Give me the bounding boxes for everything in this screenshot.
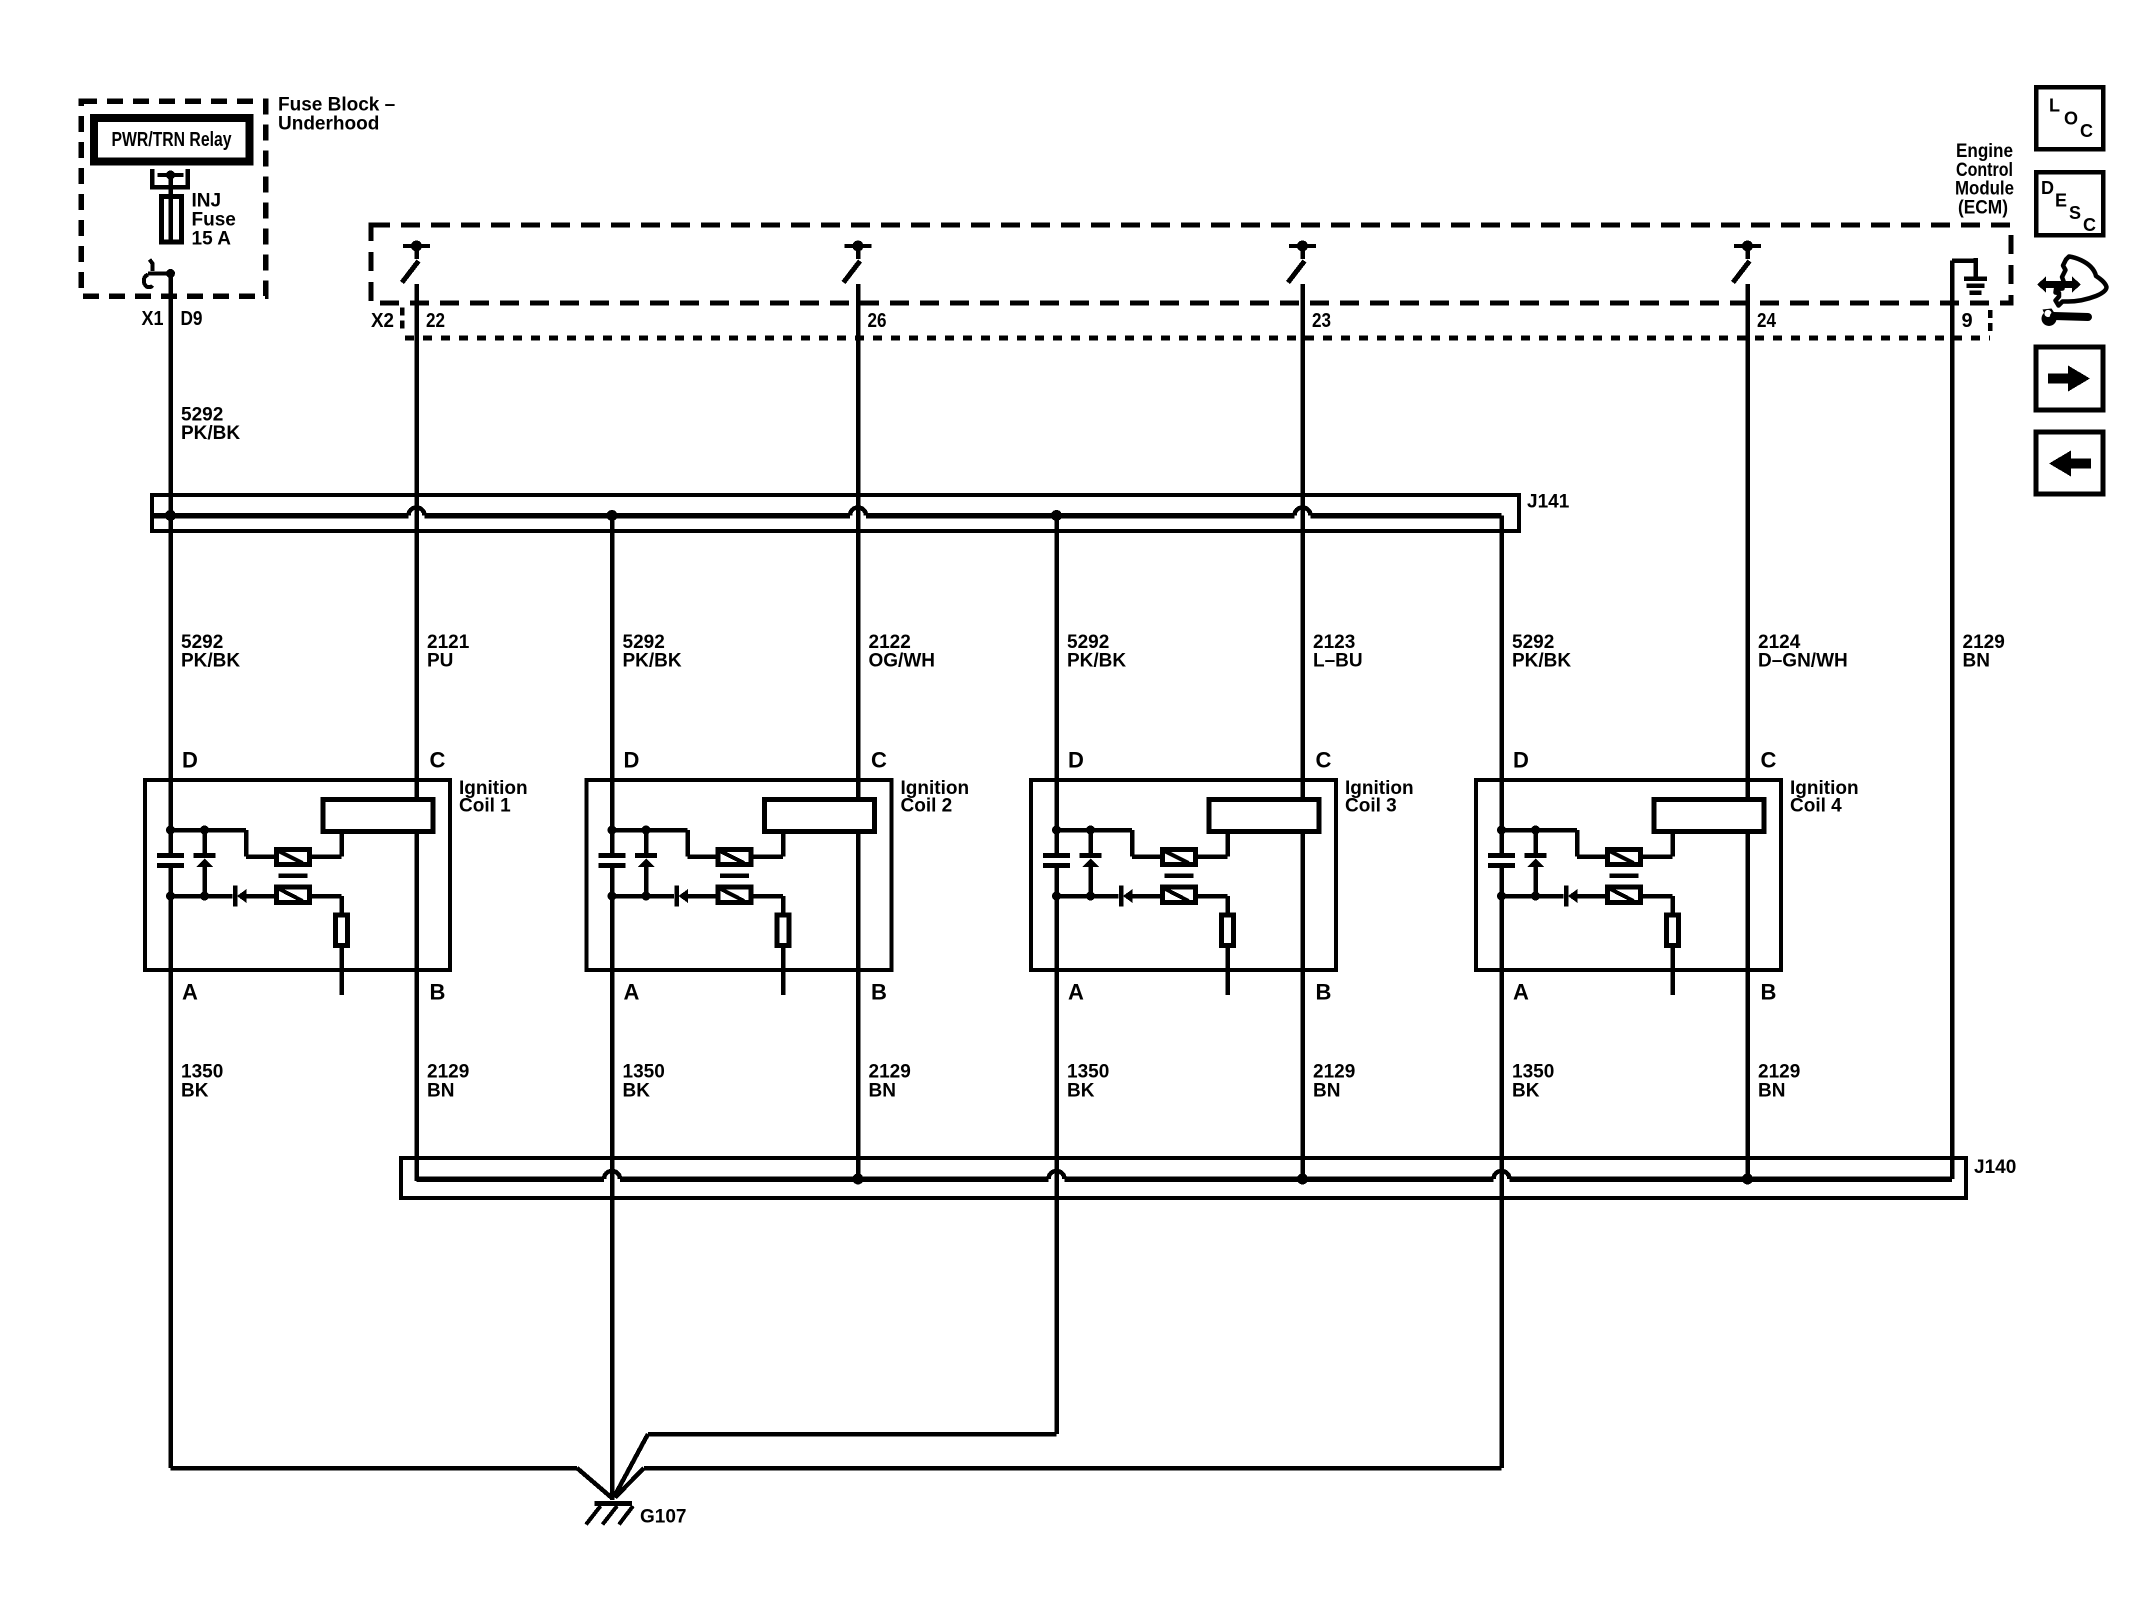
svg-text:C: C: [871, 748, 887, 773]
svg-text:PK/BK: PK/BK: [181, 423, 240, 444]
ground G107 symbol: [586, 1504, 633, 1525]
svg-text:22: 22: [426, 310, 445, 332]
secondary winding (coil 4): [1608, 887, 1641, 903]
pin label C (coil 1): [430, 748, 446, 773]
svg-text:S: S: [2069, 203, 2081, 223]
primary winding (coil 2): [718, 850, 751, 865]
wire 5292 PK/BK: J141 end to coil 4 pin D: [1499, 516, 1504, 854]
svg-text:26: 26: [868, 310, 887, 332]
wire 2129 BN: coil 4 pin B to J140: [1745, 833, 1750, 1179]
junction dot J141 / 5292 from D9: [165, 510, 176, 521]
svg-text:2129: 2129: [1313, 1062, 1355, 1083]
svg-text:PU: PU: [427, 651, 453, 672]
label: wire 5292 PK/BK: [623, 632, 682, 672]
pin label B (coil 3): [1316, 980, 1332, 1005]
internal wire: diode to secondary winding (coil 1): [247, 894, 277, 899]
pin label A (coil 3): [1068, 980, 1084, 1005]
transformer core (coil 1): [279, 873, 308, 878]
driver module box (coil 3): [1209, 800, 1319, 832]
junction dot (coil 1 zener top): [200, 826, 209, 835]
pin label C (coil 3): [1316, 748, 1332, 773]
junction dot J141 / coil 3 tap: [1051, 510, 1062, 521]
svg-text:D: D: [624, 748, 640, 773]
driver module box (coil 2): [765, 800, 875, 832]
internal wire: primary to driver module (coil 1): [310, 833, 342, 857]
svg-text:Fuse: Fuse: [192, 210, 236, 231]
svg-text:PK/BK: PK/BK: [623, 651, 682, 672]
transformer core (coil 3): [1165, 873, 1194, 878]
svg-text:A: A: [182, 980, 198, 1005]
svg-text:INJ: INJ: [192, 191, 222, 212]
pin label 9: [1962, 310, 1973, 332]
label: wire 2129 BN: [869, 1062, 911, 1102]
ECM driver switch at pin 26: [844, 241, 872, 283]
secondary winding (coil 1): [277, 887, 310, 903]
internal wire: primary to driver module (coil 3): [1196, 833, 1228, 857]
primary winding (coil 4): [1608, 850, 1641, 865]
junction dot J140 / coil 2 BN: [853, 1174, 864, 1185]
svg-text:D: D: [1513, 748, 1529, 773]
secondary winding (coil 3): [1163, 887, 1196, 903]
wire 1350 BK: coil 2 pin A to G107: [610, 868, 615, 1500]
pin label C (coil 2): [871, 748, 887, 773]
svg-text:D–GN/WH: D–GN/WH: [1758, 651, 1848, 672]
junction dot (coil 4 zener bottom): [1531, 892, 1540, 901]
internal wire: diode to secondary winding (coil 2): [688, 894, 718, 899]
zener diode (coil 1): [194, 830, 216, 896]
engine control module (ECM) dashed box: [371, 225, 2011, 303]
pin label D (coil 4): [1513, 748, 1529, 773]
junction dot (coil 2 zener top): [642, 826, 651, 835]
svg-text:G107: G107: [640, 1507, 686, 1528]
pin label X1: [142, 308, 164, 330]
junction dot (coil 3 zener bottom): [1086, 892, 1095, 901]
HV output stub (coil 3): [1225, 946, 1230, 996]
label: wire 2122 OG/WH: [869, 632, 936, 672]
capacitor C (coil 4): [1488, 856, 1515, 866]
junction dot (coil 3 pin A / bottom): [1052, 892, 1061, 901]
svg-text:L–BU: L–BU: [1313, 651, 1363, 672]
ignition coil 4 assembly box: [1476, 780, 1781, 970]
svg-text:C: C: [2083, 215, 2096, 235]
resistor (coil 1): [336, 915, 348, 946]
svg-text:E: E: [2055, 191, 2067, 211]
diode (coil 3): [1121, 886, 1133, 907]
pin label A (coil 4): [1513, 980, 1529, 1005]
wire 2129 BN: coil 2 pin B to J140: [856, 833, 861, 1179]
wire hop at pin26 wire (no connection): [850, 508, 866, 516]
label: wire 2124 D–GN/WH: [1758, 632, 1848, 672]
zener diode (coil 2): [635, 830, 657, 896]
label: Engine Control Module (ECM): [1955, 141, 2014, 219]
wire: relay to fuse: [168, 175, 173, 197]
label: wire 5292 PK/BK (fuse block output): [181, 405, 240, 445]
svg-text:Module: Module: [1955, 179, 2014, 200]
label: INJ Fuse 15 A: [192, 191, 236, 250]
pin label 26: [868, 310, 887, 332]
wire hop at pin22 wire (no connection): [409, 508, 425, 516]
connector separator (left, X2): [400, 308, 405, 334]
internal wire: secondary to resistor (coil 3): [1196, 896, 1228, 915]
internal wire: lower junction row (coil 2): [612, 894, 674, 899]
label: wire 2121 PU: [427, 632, 470, 672]
svg-text:X1: X1: [142, 308, 164, 330]
svg-text:Coil 3: Coil 3: [1345, 796, 1397, 817]
svg-text:1350: 1350: [1512, 1062, 1554, 1083]
label: wire 1350 BK: [1067, 1062, 1109, 1102]
pin label D (coil 3): [1068, 748, 1084, 773]
svg-text:BK: BK: [1067, 1081, 1095, 1102]
svg-text:1350: 1350: [181, 1062, 223, 1083]
junction dot (coil 4 pin A / bottom): [1497, 892, 1506, 901]
pin label 23: [1312, 310, 1331, 332]
resistor (coil 4): [1667, 915, 1679, 946]
icon: DESC box: [2036, 172, 2103, 235]
label: wire 1350 BK: [623, 1062, 665, 1102]
label: wire 1350 BK: [1512, 1062, 1554, 1102]
internal wire: lower junction row (coil 4): [1502, 894, 1564, 899]
relay common terminal bar: [158, 173, 184, 177]
svg-text:Coil 2: Coil 2: [901, 796, 953, 817]
splice bus wire J141: [152, 513, 1502, 519]
svg-text:15 A: 15 A: [192, 229, 232, 250]
wire 5292 PK/BK: ECM pin 22 to coil 1 pin C: [414, 284, 419, 800]
wire 2129 BN: coil 3 pin B to J140: [1300, 833, 1305, 1179]
relay K: PWR/TRN Relay name box: [94, 118, 250, 162]
junction dot (coil 1 pin D / top): [166, 826, 175, 835]
internal wire: top junction row (coil 2): [612, 830, 718, 857]
pin label D (coil 1): [182, 748, 198, 773]
svg-text:A: A: [624, 980, 640, 1005]
junction dot (coil 2 zener bottom): [642, 892, 651, 901]
splice pack J141 housing: [152, 495, 1519, 531]
capacitor C (coil 2): [599, 856, 626, 866]
label: wire 2129 BN: [1313, 1062, 1355, 1102]
svg-text:2129: 2129: [1758, 1062, 1800, 1083]
fuse F: INJ Fuse 15 A: [162, 197, 182, 243]
ECM connector strip dotted line: [405, 336, 1990, 341]
junction dot: relay common: [166, 171, 175, 180]
label J141: [1527, 492, 1570, 513]
zener diode (coil 4): [1525, 830, 1547, 896]
junction dot (coil 1 pin A / bottom): [166, 892, 175, 901]
svg-text:1350: 1350: [623, 1062, 665, 1083]
capacitor C (coil 1): [157, 856, 184, 866]
svg-text:24: 24: [1757, 310, 1777, 332]
svg-text:BK: BK: [623, 1081, 651, 1102]
label: Fuse Block - Underhood: [278, 95, 395, 135]
driver module box (coil 1): [323, 800, 433, 832]
driver module box (coil 4): [1654, 800, 1764, 832]
wire 1350 BK: coil 4 pin A to G107: [1499, 868, 1504, 1468]
svg-text:OG/WH: OG/WH: [869, 651, 936, 672]
diode (coil 4): [1566, 886, 1578, 907]
label: Ignition Coil 3: [1345, 778, 1414, 817]
ECM driver switch at pin 23: [1288, 241, 1316, 283]
internal wire: top junction row (coil 1): [171, 830, 277, 857]
pin label 22: [426, 310, 445, 332]
pin label A (coil 2): [624, 980, 640, 1005]
wire 1350 BK: coil 1 pin A to G107: [168, 868, 173, 1468]
splice bus wire J140: [417, 1176, 1953, 1182]
junction dot (coil 2 pin A / bottom): [608, 892, 617, 901]
svg-text:PK/BK: PK/BK: [181, 651, 240, 672]
resistor (coil 3): [1222, 915, 1234, 946]
junction dot (coil 4 zener top): [1531, 826, 1540, 835]
ECM internal ground symbol: [1952, 258, 1987, 293]
wire hop at coil4 BK wire (no connection): [1494, 1171, 1510, 1179]
svg-text:X2: X2: [371, 310, 394, 332]
svg-text:B: B: [430, 980, 446, 1005]
svg-text:C: C: [2080, 121, 2093, 141]
svg-text:Underhood: Underhood: [278, 114, 379, 135]
internal wire: diode to secondary winding (coil 3): [1133, 894, 1163, 899]
svg-text:C: C: [1316, 748, 1332, 773]
label: wire 2129 BN: [1758, 1062, 1800, 1102]
wire 2122 OG/WH: ECM pin 26 to coil 2 pin C: [856, 284, 861, 800]
ignition coil 1 assembly box: [145, 780, 450, 970]
svg-text:J141: J141: [1527, 492, 1570, 513]
HV output stub (coil 1): [339, 946, 344, 996]
svg-text:J140: J140: [1974, 1157, 2016, 1178]
ignition coil 3 assembly box: [1031, 780, 1336, 970]
pin label B (coil 2): [871, 980, 887, 1005]
internal wire: lower junction row (coil 3): [1057, 894, 1119, 899]
icon: left arrow box: [2036, 432, 2103, 494]
relay contact frame: [152, 169, 188, 187]
internal wire: primary to driver module (coil 4): [1641, 833, 1673, 857]
HV output stub (coil 2): [781, 946, 786, 996]
svg-text:2129: 2129: [869, 1062, 911, 1083]
junction dot J140 / coil 3 BN: [1297, 1174, 1308, 1185]
svg-text:BN: BN: [427, 1081, 454, 1102]
pin label C (coil 4): [1761, 748, 1777, 773]
label: wire 1350 BK: [181, 1062, 223, 1102]
junction dot (coil 3 zener top): [1086, 826, 1095, 835]
svg-text:Engine: Engine: [1956, 141, 2013, 162]
splice pack J140 housing: [401, 1158, 1966, 1198]
icon: vehicle outline: [2056, 257, 2107, 306]
ECM driver switch at pin 22: [402, 241, 430, 283]
label: Ignition Coil 1: [459, 778, 528, 817]
diode (coil 1): [235, 886, 247, 907]
wire hop at coil2 BK wire (no connection): [604, 1171, 620, 1179]
svg-text:2129: 2129: [427, 1062, 469, 1083]
svg-text:23: 23: [1312, 310, 1331, 332]
svg-text:D: D: [182, 748, 198, 773]
pin label 24: [1757, 310, 1777, 332]
internal wire: top junction row (coil 4): [1502, 830, 1608, 857]
pin label B (coil 4): [1761, 980, 1777, 1005]
relay switch arm (X1 side): [144, 260, 175, 288]
wire hop at coil3 BK wire (no connection): [1049, 1171, 1065, 1179]
label: wire 2129 BN: [427, 1062, 469, 1102]
junction dot (coil 2 pin D / top): [608, 826, 617, 835]
wire 5292 PK/BK: fuse block D9 to J141 and coil 1 pin D: [168, 274, 173, 854]
label: Ignition Coil 4: [1790, 778, 1859, 817]
junction dot J141 / coil 2 tap: [607, 510, 618, 521]
junction dot (coil 1 zener bottom): [200, 892, 209, 901]
svg-text:L: L: [2049, 96, 2060, 116]
svg-text:BN: BN: [1313, 1081, 1340, 1102]
secondary winding (coil 2): [718, 887, 751, 903]
label: wire 2123 L–BU: [1313, 632, 1363, 672]
svg-text:B: B: [1316, 980, 1332, 1005]
junction dot (coil 3 pin D / top): [1052, 826, 1061, 835]
svg-text:PWR/TRN Relay: PWR/TRN Relay: [112, 129, 233, 151]
svg-text:O: O: [2064, 109, 2078, 129]
primary winding (coil 1): [277, 850, 310, 865]
wire 5292 PK/BK: J141 tap to coil 3 pin D: [1054, 516, 1059, 854]
wire 1350 BK: coil 3 pin A to G107: [1054, 868, 1059, 1434]
svg-text:9: 9: [1962, 310, 1973, 332]
svg-text:D: D: [1068, 748, 1084, 773]
label: wire 5292 PK/BK: [181, 632, 240, 672]
transformer core (coil 4): [1610, 873, 1639, 878]
resistor (coil 2): [777, 915, 789, 946]
pin label A (coil 1): [182, 980, 198, 1005]
pin label X2: [371, 310, 394, 332]
connector separator (right, pin 9): [1988, 310, 1993, 336]
svg-text:Coil 1: Coil 1: [459, 796, 511, 817]
svg-text:PK/BK: PK/BK: [1512, 651, 1571, 672]
wire 5292 PK/BK: J141 tap to coil 2 pin D: [610, 516, 615, 854]
svg-text:Coil 4: Coil 4: [1790, 796, 1842, 817]
ECM driver switch at pin 24: [1733, 241, 1761, 283]
label: wire 5292 PK/BK: [1067, 632, 1126, 672]
svg-text:BN: BN: [1758, 1081, 1785, 1102]
wire 2129 BN: coil 1 pin B to J140: [414, 833, 419, 1181]
fuse block underhood dashed box: [81, 101, 266, 296]
pin label D9: [181, 308, 203, 330]
label: wire 5292 PK/BK: [1512, 632, 1571, 672]
label: Ignition Coil 2: [901, 778, 970, 817]
internal wire: top junction row (coil 3): [1057, 830, 1163, 857]
svg-text:A: A: [1068, 980, 1084, 1005]
icon: double arrow: [2037, 277, 2081, 293]
wire 2129 BN: ECM pin 9 to J140: [1950, 261, 1955, 1180]
wire 2123 L-BU: ECM pin 23 to coil 3 pin C: [1300, 284, 1305, 800]
svg-text:BK: BK: [181, 1081, 209, 1102]
svg-text:C: C: [430, 748, 446, 773]
internal wire: secondary to resistor (coil 4): [1641, 896, 1673, 915]
transformer core (coil 2): [720, 873, 749, 878]
ignition coil 2 assembly box: [587, 780, 892, 970]
junction dot (coil 4 pin D / top): [1497, 826, 1506, 835]
diode (coil 2): [677, 886, 689, 907]
svg-text:Fuse Block –: Fuse Block –: [278, 95, 395, 116]
svg-text:D: D: [2041, 178, 2054, 198]
pin label B (coil 1): [430, 980, 446, 1005]
label: wire 2129 BN: [1963, 632, 2005, 672]
internal wire: secondary to resistor (coil 1): [310, 896, 342, 915]
junction dot J140 / coil 4 BN: [1742, 1174, 1753, 1185]
svg-text:PK/BK: PK/BK: [1067, 651, 1126, 672]
svg-text:(ECM): (ECM): [1958, 198, 2008, 219]
svg-text:C: C: [1761, 748, 1777, 773]
label J140: [1974, 1157, 2016, 1178]
primary winding (coil 3): [1163, 850, 1196, 865]
internal wire: lower junction row (coil 1): [171, 894, 233, 899]
pin label D (coil 2): [624, 748, 640, 773]
icon: wrench: [2042, 309, 2089, 327]
internal wire: diode to secondary winding (coil 4): [1578, 894, 1608, 899]
zener diode (coil 3): [1080, 830, 1102, 896]
icon: LOC box: [2036, 87, 2103, 149]
svg-text:B: B: [871, 980, 887, 1005]
wire 2124 D-GN/WH: ECM pin 24 to coil 4 pin C: [1745, 284, 1750, 800]
svg-text:D9: D9: [181, 308, 203, 330]
HV output stub (coil 4): [1670, 946, 1675, 996]
svg-text:1350: 1350: [1067, 1062, 1109, 1083]
svg-text:B: B: [1761, 980, 1777, 1005]
capacitor C (coil 3): [1043, 856, 1070, 866]
internal wire: primary to driver module (coil 2): [751, 833, 783, 857]
label G107: [640, 1507, 686, 1528]
svg-text:BN: BN: [869, 1081, 896, 1102]
icon: right arrow box: [2036, 347, 2103, 410]
svg-text:BK: BK: [1512, 1081, 1540, 1102]
wire hop at pin23 wire (no connection): [1295, 508, 1311, 516]
svg-text:BN: BN: [1963, 651, 1990, 672]
svg-text:A: A: [1513, 980, 1529, 1005]
internal wire: secondary to resistor (coil 2): [751, 896, 783, 915]
